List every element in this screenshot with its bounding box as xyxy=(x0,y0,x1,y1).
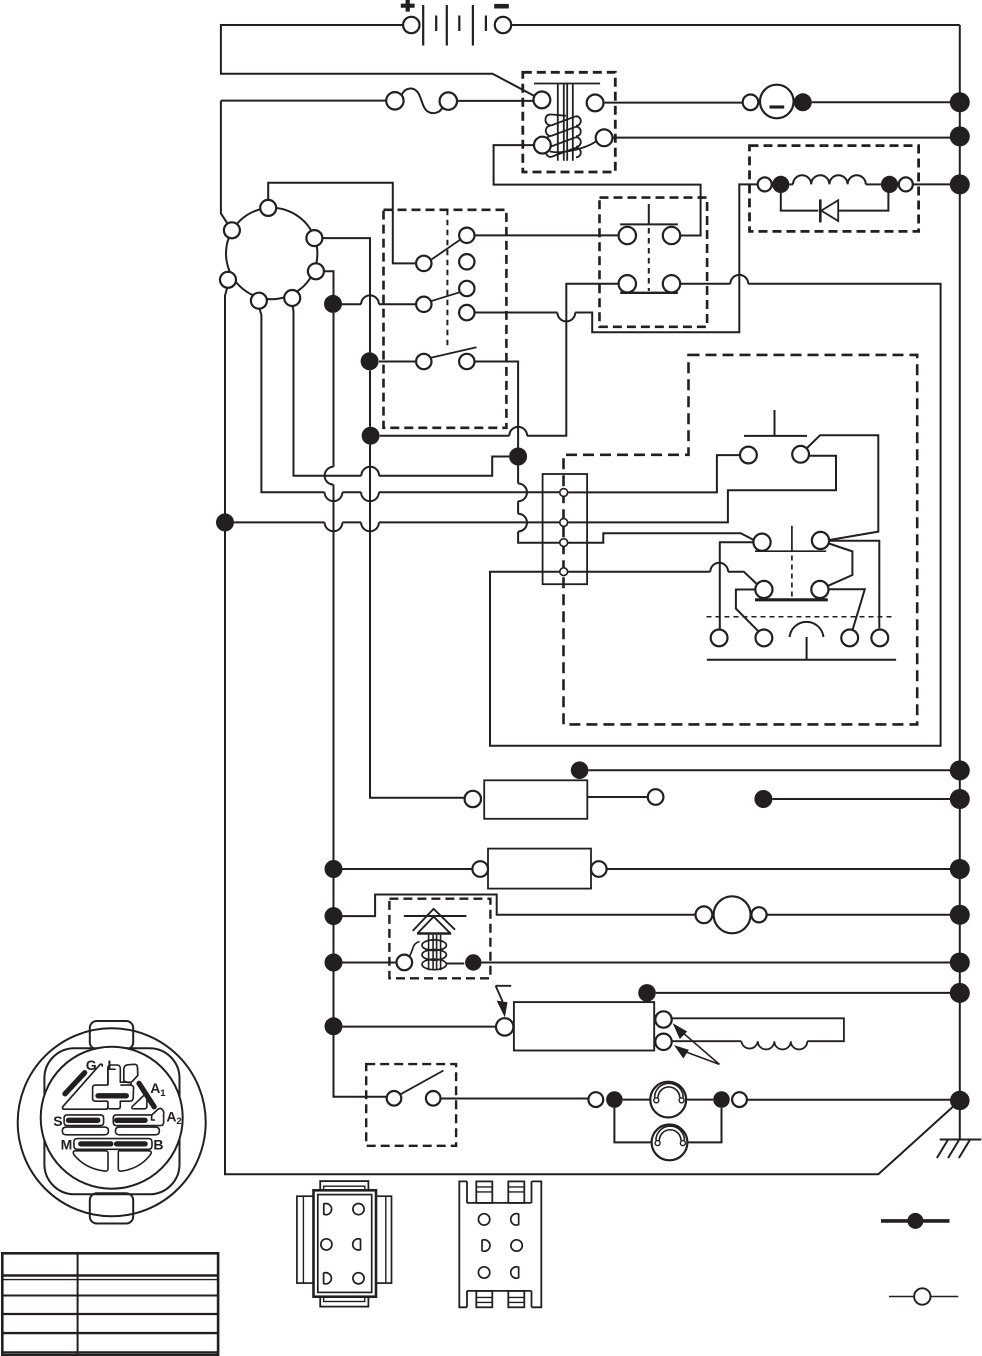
ignition module pointer arrow xyxy=(496,986,512,1018)
junction hour meter feed xyxy=(571,761,951,779)
junction right bus ground xyxy=(950,1091,970,1111)
connector strip pin 3 xyxy=(560,539,568,547)
junction starter motor feed xyxy=(325,907,343,925)
connector B pin 6 xyxy=(511,1267,519,1278)
wire battery positive to solenoid xyxy=(221,25,535,96)
wire right bus xyxy=(959,25,961,1101)
ignition switch wiper 1 xyxy=(416,240,460,271)
wire pin2 to seat switch common xyxy=(568,456,836,523)
magneto separator xyxy=(707,616,896,618)
junction lamp left xyxy=(606,1091,623,1108)
connector strip pin 2 xyxy=(560,519,568,527)
junction ignition module feed xyxy=(325,1017,343,1035)
starter solenoid terminal battery stud xyxy=(534,92,551,109)
light switch box xyxy=(366,1064,456,1146)
junction spark plug feed xyxy=(325,954,343,972)
lamp terminal in xyxy=(588,1092,603,1107)
key connector pin A1 xyxy=(308,263,324,279)
wire wiper2 to connector pin A1 junction xyxy=(342,295,417,304)
junction right bus accessory xyxy=(950,789,970,809)
wire pin3 to relay contact xyxy=(568,533,755,543)
svg-text:2: 2 xyxy=(176,1116,181,1127)
svg-text:A: A xyxy=(166,1108,176,1124)
alternator junction in xyxy=(772,176,789,193)
svg-text:A: A xyxy=(150,1080,160,1096)
junction interlock riser xyxy=(509,448,527,466)
wire kill contact to interlock riser xyxy=(475,362,519,448)
key connector pin A2 xyxy=(284,290,300,306)
diode D1 xyxy=(781,192,889,223)
legend not connected terminal xyxy=(889,1288,958,1304)
junction right bus starter row xyxy=(950,126,970,146)
svg-text:L: L xyxy=(108,1057,117,1073)
wire interlock riser to pin3 xyxy=(518,466,560,543)
ignition switch fixed contact A2 xyxy=(459,281,474,296)
ignition switch box xyxy=(384,210,507,428)
junction kill net xyxy=(362,427,380,445)
magneto terminal 4 xyxy=(871,630,888,647)
key switch face labels xyxy=(53,1057,181,1152)
ignition coil secondary loop xyxy=(672,1018,844,1049)
connector B pin 1 xyxy=(478,1214,489,1225)
legend connected junction xyxy=(881,1213,950,1229)
interlock relay contact mid left xyxy=(736,581,773,631)
hour meter H1 xyxy=(465,780,664,819)
lamp terminal out xyxy=(732,1092,950,1107)
junction ground bus tap xyxy=(216,513,234,531)
junction A1 riser xyxy=(324,295,342,313)
brake clutch switch contact pair 2 xyxy=(619,275,681,293)
connector A pin 6 xyxy=(353,1273,364,1284)
svg-text:S: S xyxy=(53,1113,62,1129)
ignition switch wiper 3 and kill contact xyxy=(416,347,476,369)
magneto coil symbol xyxy=(707,622,896,660)
ignition switch fixed contact M xyxy=(459,305,474,320)
junction right bus row1 xyxy=(950,760,970,780)
seat switch contact NO xyxy=(740,447,757,464)
wire solenoid coil to brake switch xyxy=(494,145,701,235)
connector strip pin 4 xyxy=(560,568,568,576)
brake clutch switch box xyxy=(600,198,708,327)
interlock relay contact top left xyxy=(720,534,771,630)
wire ground tap to seat switch common (wire C) xyxy=(234,522,560,531)
ignition switch fixed contact B xyxy=(459,228,474,243)
wire brake switch pair2 to interlock pin4 xyxy=(490,275,941,746)
wire pin4 to relay coil xyxy=(568,563,757,584)
wire light switch to lamps xyxy=(441,1098,589,1100)
svg-text:1: 1 xyxy=(160,1088,166,1099)
alternator junction out xyxy=(881,176,898,193)
key switch face terminal bars xyxy=(65,1073,154,1144)
wire wiper3 to kill riser xyxy=(379,361,416,363)
junction fuel solenoid feed xyxy=(325,860,343,878)
ignition coil secondary terminal HT xyxy=(655,1011,671,1027)
key switch connector ring xyxy=(226,208,317,299)
key connector pin L xyxy=(251,293,267,309)
spark plug P1 xyxy=(397,909,467,971)
starter solenoid coil terminal xyxy=(534,137,551,154)
magneto terminal 3 xyxy=(841,630,858,647)
harness connector strip xyxy=(543,474,588,584)
starter solenoid terminal output stud xyxy=(587,95,604,112)
fuse F1 xyxy=(386,89,533,114)
starter motor M2 xyxy=(696,896,951,933)
connector B pin 5 xyxy=(478,1267,489,1278)
starter solenoid core xyxy=(534,84,600,161)
connector A pin 5 xyxy=(324,1273,332,1284)
alternator terminal AC2 xyxy=(899,177,951,191)
ammeter M1 xyxy=(743,85,951,119)
wire A1 riser xyxy=(324,271,387,1097)
connector A pin 2 xyxy=(353,1204,364,1215)
wire ground bus left xyxy=(225,288,960,1175)
key connector pin M xyxy=(306,230,322,246)
connector B pin 2 xyxy=(511,1214,519,1225)
light switch S2 xyxy=(387,1071,444,1106)
wire color legend table xyxy=(2,1253,218,1355)
wire alternator to ignition switch M terminal xyxy=(475,184,758,332)
brake clutch switch plunger xyxy=(620,204,678,291)
alternator stator coil L1 xyxy=(789,175,881,184)
starter solenoid K1 box xyxy=(523,72,616,172)
interlock module box xyxy=(564,355,918,725)
ignition coil secondary terminal GND xyxy=(655,1034,671,1050)
headlamp LA1 xyxy=(623,1082,714,1118)
connector B pin 3 xyxy=(482,1240,490,1251)
connector B body xyxy=(459,1181,541,1307)
interlock relay contact top right xyxy=(812,532,829,549)
accessory tap xyxy=(754,790,950,808)
key connector pin G xyxy=(220,272,236,288)
battery B1 xyxy=(401,0,511,46)
magneto terminal 2 xyxy=(756,630,773,647)
interlock relay plunger axis xyxy=(791,556,793,598)
ground symbol xyxy=(937,1110,981,1158)
alternator box xyxy=(750,146,919,232)
alternator terminal AC1 xyxy=(758,177,772,191)
wire connector A2 to interlock (wire A) xyxy=(293,306,510,476)
wire kill riser xyxy=(322,238,464,798)
spark plug box xyxy=(343,899,491,979)
headlamp LA2 xyxy=(614,1108,721,1160)
connector A pin 1 xyxy=(324,1204,332,1215)
junction spark plug out xyxy=(465,954,950,970)
fuel solenoid V1 xyxy=(343,849,951,889)
wire connector pin S to wiper1 xyxy=(268,183,416,264)
junction right bus row2 xyxy=(950,859,970,879)
svg-text:B: B xyxy=(153,1137,163,1153)
wire ignition module feed xyxy=(343,1026,496,1028)
wire connector L to seat switch (wire B) xyxy=(260,309,560,502)
junction right bus module row xyxy=(950,983,970,1003)
svg-text:M: M xyxy=(61,1137,73,1153)
interlock relay armature stem xyxy=(755,526,826,552)
key connector pin B xyxy=(224,222,240,238)
seat switch contact common xyxy=(792,435,878,540)
connector A pin 3 xyxy=(321,1239,332,1250)
starter solenoid armature terminal xyxy=(550,129,613,152)
wire solenoid armature to right bus xyxy=(613,137,951,139)
junction kill riser switch3 xyxy=(361,352,379,370)
ignition switch fixed contact A1 xyxy=(459,254,474,269)
key switch face body xyxy=(18,1021,206,1224)
wire solenoid output to ammeter xyxy=(604,102,743,104)
junction right bus charge row xyxy=(950,174,970,194)
wire pin1 to seat switch NO xyxy=(568,455,740,492)
wire ignition L terminal to brake switch xyxy=(475,234,619,236)
junction right bus spark row xyxy=(950,953,970,973)
ignition switch wiper 2 xyxy=(416,292,460,312)
seat switch plunger xyxy=(744,410,807,436)
connector A body xyxy=(297,1181,392,1307)
junction right bus row3 xyxy=(950,905,970,925)
junction lamp right xyxy=(713,1091,730,1108)
junction ignition module out xyxy=(638,984,950,1002)
connector B pin 4 xyxy=(511,1240,522,1251)
magneto terminal 1 xyxy=(711,630,728,647)
junction right bus ammeter row xyxy=(950,92,970,112)
connector A pin 4 xyxy=(353,1239,361,1250)
svg-text:G: G xyxy=(86,1057,97,1073)
connector strip pin 1 xyxy=(560,489,568,497)
key switch face slots xyxy=(62,1064,163,1171)
starter solenoid coil xyxy=(545,114,580,157)
brake clutch switch contact pair 1 xyxy=(619,227,681,244)
interlock relay contact mid right xyxy=(811,541,879,630)
ignition module terminal xyxy=(496,1018,513,1035)
wire starter motor row xyxy=(343,895,696,917)
wire brake switch pair2 to magneto kill net xyxy=(380,284,619,436)
wire fuse feed and connector pin B xyxy=(221,101,386,225)
ignition module xyxy=(514,1002,654,1050)
interlock relay contact bar xyxy=(755,598,828,601)
wire battery negative to right bus xyxy=(511,24,960,26)
spark gap arrows xyxy=(673,1023,720,1064)
key connector pin S xyxy=(260,200,276,216)
